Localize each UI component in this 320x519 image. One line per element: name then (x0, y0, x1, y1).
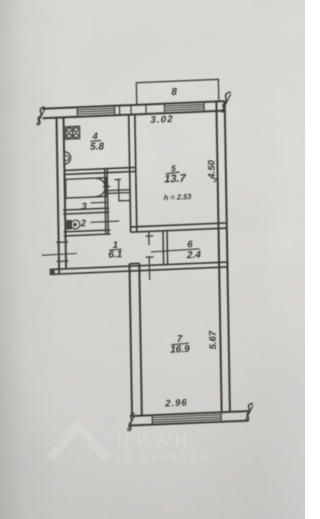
entrance foot block (50, 269, 55, 275)
kitchen bottom wall (64, 167, 135, 170)
leader from 1 to left (42, 253, 77, 255)
dim 5.67 rotated (208, 330, 219, 350)
balcony door dividers in wall (119, 104, 146, 115)
WC (67, 220, 80, 229)
watermark (50, 426, 209, 463)
room7 left wall (129, 264, 132, 416)
break squiggle bottom-right (246, 403, 253, 421)
bathroom: tub (66, 178, 107, 198)
kitchen / room5 divider wall (129, 115, 131, 232)
window W2 hatch room5 (164, 102, 204, 113)
break squiggle top-left (38, 107, 45, 125)
room5 bottom wall (131, 223, 227, 227)
top wall inner line (43, 111, 225, 119)
hall/room6 door jamb line with ticks (146, 232, 154, 280)
bath right wall (105, 169, 106, 235)
top wall outer line (42, 101, 224, 109)
kitchen sink (half-round on wall) (64, 152, 70, 164)
room6 left wall (162, 231, 165, 265)
stove (66, 126, 80, 139)
floor plan (tilted as in photo) (36, 78, 253, 435)
break squiggle top-right (222, 92, 231, 112)
bath / toilet divider wall (63, 208, 109, 210)
tap tick (103, 185, 111, 187)
right outer wall (216, 102, 221, 413)
toilet bottom wall (63, 230, 110, 232)
balcony room 8 outline (136, 79, 218, 105)
bottom window hatch (152, 412, 221, 424)
window W1 hatch kitchen (77, 106, 115, 117)
corridor door pieces (107, 178, 130, 201)
dim 4.50 rotated (206, 159, 217, 182)
entrance door ticks (56, 241, 68, 244)
bottom wall (130, 411, 249, 416)
left outer wall (57, 118, 60, 274)
hall bottom / room6 bottom wall (50, 262, 228, 269)
break squiggle bottom-left (129, 413, 135, 431)
